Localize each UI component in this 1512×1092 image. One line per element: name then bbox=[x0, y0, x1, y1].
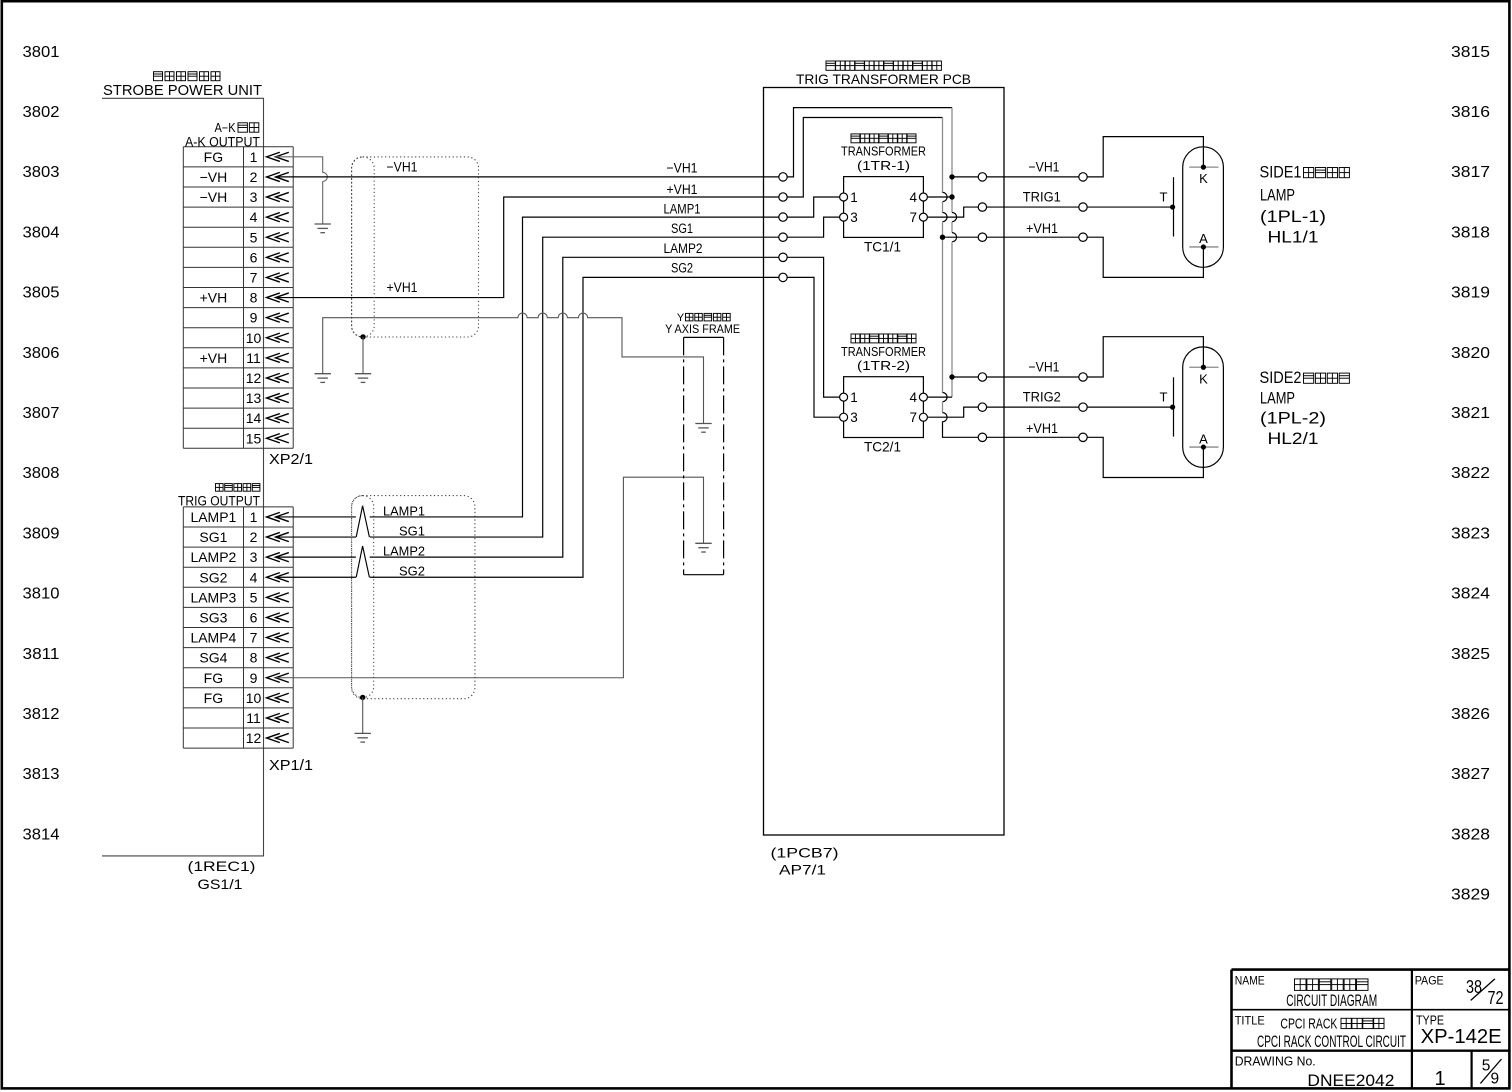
junction bbox=[949, 194, 954, 199]
svg-text:(1PCB7): (1PCB7) bbox=[771, 845, 839, 861]
svg-text:TRANSFORMER: TRANSFORMER bbox=[841, 144, 926, 159]
svg-text:TRIG TRANSFORMER PCB: TRIG TRANSFORMER PCB bbox=[796, 71, 971, 87]
svg-text:STROBE POWER UNIT: STROBE POWER UNIT bbox=[103, 82, 262, 99]
svg-text:−VH1: −VH1 bbox=[387, 160, 418, 175]
svg-text:TRIG2: TRIG2 bbox=[1023, 389, 1061, 404]
svg-text:SG1: SG1 bbox=[399, 524, 425, 539]
wire -VH1 branch to lamp1 K bbox=[952, 176, 978, 178]
svg-text:10: 10 bbox=[246, 330, 262, 346]
twisted pair marker LAMP1/SG1 bbox=[356, 506, 369, 537]
svg-text:3: 3 bbox=[850, 410, 858, 425]
svg-text:SG2: SG2 bbox=[199, 569, 227, 585]
svg-text:LAMP: LAMP bbox=[1260, 388, 1295, 407]
svg-text:LAMP4: LAMP4 bbox=[190, 630, 236, 646]
ground bbox=[355, 373, 371, 375]
svg-text:3805: 3805 bbox=[23, 285, 60, 302]
svg-text:+VH1: +VH1 bbox=[1026, 221, 1058, 236]
svg-text:DNEE2042: DNEE2042 bbox=[1307, 1071, 1394, 1090]
svg-text:3802: 3802 bbox=[23, 104, 60, 121]
junction bbox=[949, 374, 954, 379]
svg-text:6: 6 bbox=[250, 249, 258, 265]
svg-text:5: 5 bbox=[1482, 1058, 1491, 1075]
svg-text:FG: FG bbox=[204, 670, 223, 686]
wire lamp 2 cathode lead bbox=[1087, 337, 1203, 377]
svg-text:SG1: SG1 bbox=[199, 529, 227, 545]
svg-text:LAMP3: LAMP3 bbox=[190, 589, 236, 605]
svg-text:3827: 3827 bbox=[1451, 766, 1490, 783]
twisted pair marker LAMP2/SG2 bbox=[356, 546, 369, 577]
wire TRIG2 to lamp 2 bbox=[987, 406, 1079, 408]
connector XP1/1 table bbox=[183, 507, 293, 748]
wire SG2 net bbox=[276, 277, 779, 577]
svg-text:4: 4 bbox=[250, 209, 258, 225]
wire lamp 1 cathode lead bbox=[1087, 137, 1203, 177]
svg-text:SIDE1: SIDE1 bbox=[1260, 163, 1302, 182]
svg-text:CPCI RACK: CPCI RACK bbox=[1280, 1015, 1337, 1032]
svg-text:3816: 3816 bbox=[1451, 104, 1490, 121]
svg-text:13: 13 bbox=[246, 390, 262, 406]
wire TC1 pin7 to TRIG1 bbox=[928, 207, 978, 217]
lamp 2 cathode bar K bbox=[1189, 366, 1218, 368]
TC2 pin circles bbox=[840, 393, 928, 421]
svg-text:3814: 3814 bbox=[23, 826, 60, 843]
svg-text:3806: 3806 bbox=[23, 345, 60, 362]
svg-text:SG2: SG2 bbox=[671, 261, 693, 276]
svg-text:3809: 3809 bbox=[23, 525, 60, 542]
wire -VH1 bus vertical bbox=[952, 108, 957, 398]
svg-text:−VH1: −VH1 bbox=[1029, 160, 1060, 175]
TC1 pin circles bbox=[840, 193, 928, 221]
svg-text:T: T bbox=[1160, 390, 1168, 405]
svg-text:1: 1 bbox=[250, 149, 258, 165]
title block TITLE cell bbox=[1235, 1014, 1406, 1051]
svg-text:3818: 3818 bbox=[1451, 224, 1490, 241]
label SIDE1 lamp bbox=[1260, 163, 1350, 247]
svg-text:3829: 3829 bbox=[1451, 887, 1490, 904]
title block NAME cell bbox=[1235, 974, 1378, 1011]
wire -VH1 to lamp 2 bbox=[987, 376, 1079, 378]
svg-text:3815: 3815 bbox=[1451, 44, 1490, 61]
title block frame bbox=[1232, 970, 1510, 1089]
cable 1 shield drain junction bbox=[360, 334, 365, 339]
wire -VH1 inside PCB bbox=[787, 108, 952, 177]
svg-text:3803: 3803 bbox=[23, 164, 60, 181]
svg-text:(1TR-2): (1TR-2) bbox=[857, 358, 910, 373]
svg-text:LAMP1: LAMP1 bbox=[190, 509, 236, 525]
svg-text:LAMP2: LAMP2 bbox=[664, 241, 703, 256]
lamp 2 trigger electrode bbox=[1173, 377, 1175, 436]
svg-text:7: 7 bbox=[250, 269, 258, 285]
svg-text:7: 7 bbox=[250, 630, 258, 646]
wire FG pin1 to ground bbox=[276, 157, 328, 224]
svg-text:2: 2 bbox=[250, 529, 258, 545]
svg-text:3817: 3817 bbox=[1451, 164, 1490, 181]
junction bbox=[1201, 365, 1206, 370]
svg-text:XP2/1: XP2/1 bbox=[269, 452, 313, 468]
wire LAMP2 to TC2 pin1 bbox=[787, 257, 839, 397]
svg-text:XP1/1: XP1/1 bbox=[269, 758, 313, 774]
title block TYPE cell bbox=[1416, 1013, 1502, 1048]
connector XP2/1 pin names and numbers bbox=[200, 149, 262, 446]
Y axis frame label bbox=[665, 312, 740, 336]
svg-text:3: 3 bbox=[850, 210, 858, 225]
lamp 2 anode bar A bbox=[1189, 446, 1218, 448]
svg-text:HL1/1: HL1/1 bbox=[1268, 228, 1319, 247]
svg-text:9: 9 bbox=[250, 310, 258, 326]
svg-text:3808: 3808 bbox=[23, 465, 60, 482]
svg-text:LAMP2: LAMP2 bbox=[190, 549, 236, 565]
svg-text:7: 7 bbox=[909, 410, 917, 425]
svg-text:SIDE2: SIDE2 bbox=[1260, 368, 1302, 387]
net labels lamp 1 bbox=[1023, 160, 1061, 236]
unit GS1/1 STROBE POWER UNIT label bbox=[103, 72, 262, 99]
svg-text:−VH1: −VH1 bbox=[667, 161, 698, 176]
svg-text:9: 9 bbox=[1490, 1070, 1499, 1087]
wire FG XP1 pin9 to Y axis frame lower bbox=[276, 477, 704, 678]
svg-text:SG4: SG4 bbox=[199, 650, 227, 666]
title block PAGE cell bbox=[1415, 974, 1504, 1009]
svg-text:5: 5 bbox=[250, 589, 258, 605]
svg-text:AP7/1: AP7/1 bbox=[779, 862, 826, 878]
wire +VH1 to lamp 1 bbox=[987, 236, 1079, 238]
Y axis frame chassis lines bbox=[684, 337, 724, 574]
lamp HL2/1 envelope bbox=[1183, 347, 1224, 468]
svg-text:3: 3 bbox=[250, 189, 258, 205]
svg-text:3801: 3801 bbox=[23, 44, 60, 61]
transformer TC1/1 box bbox=[844, 177, 924, 238]
wire -VH1 branch to lamp2 K bbox=[952, 376, 978, 378]
wire TC2 pin4 to -VH1 bus bbox=[928, 396, 952, 398]
connector XP2/1 table bbox=[183, 147, 293, 449]
svg-text:LAMP: LAMP bbox=[1260, 186, 1295, 205]
svg-text:2: 2 bbox=[250, 169, 258, 185]
wire lamp 1 anode lead bbox=[1087, 237, 1203, 277]
svg-text:K: K bbox=[1199, 171, 1208, 186]
transformer TC1/1 labels bbox=[841, 134, 926, 173]
svg-text:LAMP2: LAMP2 bbox=[383, 544, 425, 559]
svg-text:TC1/1: TC1/1 bbox=[864, 239, 901, 255]
svg-text:4: 4 bbox=[909, 190, 917, 205]
label SIDE2 lamp bbox=[1260, 368, 1350, 448]
lamp 1 cathode bar K bbox=[1189, 166, 1218, 168]
wire TC1 pin4 to -VH1 bus bbox=[928, 196, 952, 198]
wire TC2 pin7 to TRIG2 bbox=[928, 407, 978, 417]
label (1PCB7) AP7/1 bbox=[771, 845, 839, 878]
svg-text:FG: FG bbox=[204, 690, 223, 706]
wire SG1 to TC1 pin3 bbox=[787, 217, 839, 237]
wire -VH1 to lamp 1 bbox=[987, 176, 1079, 178]
PCB output terminal circles bbox=[978, 173, 986, 442]
label (1REC1) GS1/1 bbox=[188, 858, 256, 892]
svg-text:CPCI RACK CONTROL CIRCUIT: CPCI RACK CONTROL CIRCUIT bbox=[1257, 1032, 1406, 1051]
cable 2 net labels bbox=[383, 503, 425, 578]
svg-text:72: 72 bbox=[1488, 988, 1504, 1008]
svg-text:LAMP1: LAMP1 bbox=[664, 202, 701, 217]
svg-text:3813: 3813 bbox=[23, 766, 60, 783]
svg-text:XP-142E: XP-142E bbox=[1421, 1026, 1502, 1048]
wire FG shield to Y axis frame upper bbox=[323, 313, 704, 423]
junction bbox=[1201, 444, 1206, 449]
svg-text:1: 1 bbox=[850, 190, 858, 205]
svg-text:3807: 3807 bbox=[23, 405, 60, 422]
svg-text:+VH1: +VH1 bbox=[667, 182, 698, 197]
junction bbox=[940, 235, 945, 240]
TC2 pin numbers bbox=[850, 390, 917, 425]
svg-text:3811: 3811 bbox=[23, 646, 60, 663]
svg-text:−VH: −VH bbox=[200, 169, 228, 185]
transformer TC2/1 labels bbox=[841, 334, 926, 373]
A-K OUTPUT label bbox=[185, 121, 260, 150]
wire +VH1 bus vertical bbox=[943, 118, 979, 438]
svg-text:3804: 3804 bbox=[23, 224, 60, 241]
svg-text:3823: 3823 bbox=[1451, 525, 1490, 542]
junction bbox=[1170, 204, 1175, 209]
title block DRAWING cell bbox=[1235, 1055, 1502, 1091]
transformer TC2/1 box bbox=[844, 377, 924, 438]
svg-text:6: 6 bbox=[250, 609, 258, 625]
svg-text:12: 12 bbox=[246, 370, 262, 386]
svg-text:15: 15 bbox=[246, 430, 262, 446]
svg-text:(1REC1): (1REC1) bbox=[188, 858, 256, 874]
svg-text:4: 4 bbox=[909, 390, 917, 405]
svg-text:3810: 3810 bbox=[23, 586, 60, 603]
svg-text:3821: 3821 bbox=[1451, 405, 1490, 422]
PCB input terminal circles bbox=[779, 173, 787, 282]
svg-text:+VH: +VH bbox=[200, 290, 228, 306]
wire LAMP1 net bbox=[276, 217, 779, 517]
svg-text:38: 38 bbox=[1466, 977, 1482, 997]
lamp HL1/1 envelope bbox=[1183, 147, 1224, 268]
svg-text:3819: 3819 bbox=[1451, 285, 1490, 302]
junction bbox=[1170, 405, 1175, 410]
svg-text:(1PL-2): (1PL-2) bbox=[1260, 409, 1326, 428]
svg-text:FG: FG bbox=[204, 149, 223, 165]
svg-text:3828: 3828 bbox=[1451, 826, 1490, 843]
junction bbox=[1201, 244, 1206, 249]
wire +VH1 net bbox=[276, 197, 779, 298]
wire lamp 2 anode lead bbox=[1087, 437, 1203, 477]
wire +VH1 branch to lamp1 A bbox=[943, 236, 979, 238]
svg-text:TRIG1: TRIG1 bbox=[1023, 189, 1061, 204]
svg-text:7: 7 bbox=[909, 210, 917, 225]
svg-text:HL2/1: HL2/1 bbox=[1268, 429, 1319, 448]
svg-text:10: 10 bbox=[246, 690, 262, 706]
ground bbox=[355, 732, 371, 734]
svg-text:A: A bbox=[1199, 431, 1208, 446]
ground bbox=[315, 373, 331, 375]
svg-text:K: K bbox=[1199, 371, 1208, 386]
svg-text:TRIG OUTPUT: TRIG OUTPUT bbox=[178, 494, 260, 509]
lamp 1 trigger electrode bbox=[1173, 177, 1175, 236]
wire +VH1 to lamp 2 bbox=[987, 436, 1079, 438]
svg-text:TC2/1: TC2/1 bbox=[864, 439, 901, 455]
svg-text:A−K: A−K bbox=[215, 121, 237, 135]
svg-text:+VH1: +VH1 bbox=[387, 280, 418, 295]
zone numbers right column bbox=[1451, 44, 1490, 904]
net labels lamp 2 bbox=[1023, 360, 1061, 436]
svg-text:SG3: SG3 bbox=[199, 609, 227, 625]
wire SG1 net bbox=[276, 237, 779, 537]
svg-text:+VH: +VH bbox=[200, 350, 228, 366]
wire lamp 1 trigger lead bbox=[1087, 206, 1172, 208]
svg-text:NAME: NAME bbox=[1235, 974, 1265, 988]
svg-text:+VH1: +VH1 bbox=[1026, 421, 1058, 436]
wire LAMP1 to TC1 pin1 bbox=[787, 197, 839, 217]
wire -VH1 net bbox=[276, 176, 779, 178]
svg-text:14: 14 bbox=[246, 410, 262, 426]
ground bbox=[315, 223, 331, 225]
svg-text:1: 1 bbox=[250, 509, 258, 525]
junction bbox=[1201, 165, 1206, 170]
junction bbox=[949, 174, 954, 179]
wire SG2 to TC2 pin3 bbox=[787, 277, 839, 417]
svg-text:PAGE: PAGE bbox=[1415, 974, 1444, 988]
svg-text:GS1/1: GS1/1 bbox=[198, 876, 243, 892]
svg-text:(1PL-1): (1PL-1) bbox=[1260, 207, 1326, 226]
lamp 2 connector circles bbox=[1079, 373, 1087, 442]
wire shield drain to ground bbox=[362, 697, 364, 733]
svg-text:SG1: SG1 bbox=[671, 221, 693, 236]
svg-text:3822: 3822 bbox=[1451, 465, 1490, 482]
svg-text:Y AXIS FRAME: Y AXIS FRAME bbox=[665, 322, 740, 336]
TRIG OUTPUT label bbox=[178, 484, 260, 509]
net labels at PCB inputs bbox=[664, 161, 703, 276]
cable 2 shield drain junction bbox=[360, 695, 365, 700]
svg-text:3826: 3826 bbox=[1451, 706, 1490, 723]
svg-text:8: 8 bbox=[250, 290, 258, 306]
svg-text:DRAWING No.: DRAWING No. bbox=[1235, 1055, 1316, 1069]
svg-text:A: A bbox=[1199, 231, 1208, 246]
svg-text:−VH1: −VH1 bbox=[1029, 360, 1060, 375]
svg-text:1: 1 bbox=[850, 390, 858, 405]
PCB AP7/1 box bbox=[764, 88, 1005, 836]
TC1 pin numbers bbox=[850, 190, 917, 225]
ground bbox=[695, 542, 711, 544]
svg-text:3812: 3812 bbox=[23, 706, 60, 723]
svg-text:3820: 3820 bbox=[1451, 345, 1490, 362]
lamp 1 anode bar A bbox=[1189, 246, 1218, 248]
shielded cable outline lower bbox=[352, 496, 475, 699]
svg-text:8: 8 bbox=[250, 650, 258, 666]
unit GS1/1 boundary line bbox=[102, 98, 264, 856]
ground bbox=[695, 423, 711, 425]
svg-text:5: 5 bbox=[250, 229, 258, 245]
PCB title bbox=[796, 61, 971, 87]
svg-text:(1TR-1): (1TR-1) bbox=[857, 158, 910, 173]
wire shield drain to ground bbox=[362, 337, 364, 374]
zone numbers left column bbox=[23, 44, 60, 844]
svg-text:3: 3 bbox=[250, 549, 258, 565]
svg-text:1: 1 bbox=[1434, 1068, 1445, 1090]
connector XP1/1 contact arrows bbox=[267, 512, 289, 742]
svg-text:−VH: −VH bbox=[200, 189, 228, 205]
svg-text:LAMP1: LAMP1 bbox=[383, 503, 425, 518]
connector XP2/1 contact arrows bbox=[267, 152, 289, 443]
lamp 1 connector circles bbox=[1079, 173, 1087, 242]
svg-text:4: 4 bbox=[250, 569, 258, 585]
svg-text:CIRCUIT DIAGRAM: CIRCUIT DIAGRAM bbox=[1286, 991, 1377, 1010]
svg-text:11: 11 bbox=[246, 710, 261, 726]
svg-text:3825: 3825 bbox=[1451, 646, 1490, 663]
svg-text:9: 9 bbox=[250, 670, 258, 686]
svg-text:12: 12 bbox=[246, 730, 262, 746]
svg-text:11: 11 bbox=[246, 350, 261, 366]
svg-text:3824: 3824 bbox=[1451, 586, 1490, 603]
svg-text:TITLE: TITLE bbox=[1235, 1014, 1265, 1028]
svg-text:T: T bbox=[1160, 190, 1168, 205]
wire LAMP2 net bbox=[276, 257, 779, 557]
wire lamp 2 trigger lead bbox=[1087, 406, 1172, 408]
svg-text:SG2: SG2 bbox=[399, 564, 425, 579]
shielded cable outline upper bbox=[352, 157, 479, 337]
wire +VH1 inside PCB bbox=[787, 118, 942, 198]
svg-text:TRANSFORMER: TRANSFORMER bbox=[841, 344, 926, 359]
wire TRIG1 to lamp 1 bbox=[987, 206, 1079, 208]
connector XP1/1 pin names and numbers bbox=[190, 509, 261, 746]
